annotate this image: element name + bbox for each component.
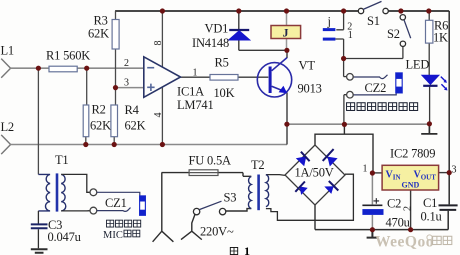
svg-text:J: J (283, 26, 289, 40)
wire VOUT pin3 (439, 172, 450, 174)
wire S2 bottom lead (402, 46, 404, 58)
terminal circle CZ1 lower (90, 207, 97, 214)
wire 220V left prong riser (161, 173, 163, 232)
svg-text:MIC: MIC (103, 230, 123, 241)
transistor Q1 VT 9013 (257, 58, 291, 97)
wire VT emitter down to rail and L2 (286, 93, 288, 145)
capacitor C2 electrolytic (362, 198, 383, 215)
wire R3 bottom to pin3 node and R4 (115, 49, 117, 105)
svg-text:C2: C2 (387, 197, 401, 211)
resistor R1 (49, 66, 77, 72)
wire relay J bottom lead (286, 39, 288, 51)
svg-text:1A/50V: 1A/50V (295, 166, 334, 180)
svg-text:3: 3 (124, 78, 129, 89)
wire S2 bypass horizontal (344, 58, 403, 60)
relay contact j bar upper (323, 28, 336, 31)
svg-text:8: 8 (153, 41, 164, 46)
svg-text:1: 1 (244, 244, 250, 255)
junction dot relay top (284, 8, 289, 13)
net label power out to recorder (347, 103, 418, 111)
resistor R2 (83, 105, 89, 137)
wire rail stub to VIN bus (343, 124, 345, 134)
bridge diode bottom-left (295, 182, 307, 195)
wire R2 top lead from L1 wire (86, 68, 88, 105)
bridge diode top-right (323, 149, 338, 166)
wire top supply rail y11 (115, 10, 449, 12)
terminal circle CZ1 upper (90, 189, 97, 196)
wire T1 secondary top to CZ1 (61, 174, 90, 192)
net label to recorder (106, 220, 140, 227)
junction dot pin3 node (113, 85, 118, 90)
wire T2 secondary bottom to bridge AC2 (266, 174, 354, 220)
bridge rectifier diamond (285, 145, 345, 205)
wire fuse line 220V to T2 (162, 173, 252, 177)
bridge diode top-left (296, 152, 310, 167)
wire C1 bottom to ground rail (447, 211, 449, 230)
ground tick at LED rail (421, 124, 437, 134)
wire R3 top lead from rail (115, 11, 117, 20)
relay coil J box (271, 26, 301, 40)
wire CZ2 upper contact with hook (353, 75, 388, 79)
svg-text:T2: T2 (251, 158, 265, 172)
junction dot L2-R2 (83, 142, 88, 147)
svg-text:R5: R5 (215, 56, 229, 70)
regulator IC2 7809 box (382, 165, 439, 190)
svg-text:IC1A: IC1A (177, 85, 204, 99)
terminal circle CZ2 upper (347, 74, 354, 81)
wire CZ1 lower contact with hook (97, 208, 131, 212)
relay contact j bar lower (323, 38, 336, 41)
svg-text:0.1u: 0.1u (421, 210, 443, 224)
transformer T1 core (56, 173, 59, 211)
wire bridge minus to ground rail (314, 205, 316, 230)
wire relay J top lead (286, 11, 288, 26)
svg-text:S3: S3 (224, 191, 237, 205)
wire bottom ground rail (315, 229, 448, 231)
net label MIC input (103, 230, 140, 241)
svg-text:62K: 62K (90, 119, 111, 133)
svg-text:CZ1: CZ1 (105, 196, 127, 210)
junction dot R6 top (426, 8, 431, 13)
wire unregulated rail y124 (287, 123, 430, 125)
svg-text:1: 1 (193, 68, 198, 79)
wire op-amp output to R5 (181, 76, 211, 78)
svg-text:3: 3 (452, 165, 457, 176)
wire L2 horizontal ground line (11, 144, 287, 146)
wire CZ1 upper contact to plug tip (97, 192, 140, 196)
junction dot C2 ground (370, 227, 375, 232)
svg-text:IN4148: IN4148 (192, 36, 229, 50)
wire R5 to VT base (238, 76, 268, 78)
connector CZ2 plug (396, 73, 402, 93)
junction dot L2-R4 (112, 142, 117, 147)
svg-text:S1: S1 (367, 14, 380, 28)
svg-text:GND: GND (402, 181, 420, 190)
svg-text:FU 0.5A: FU 0.5A (189, 154, 232, 168)
junction dot emitter rail (284, 122, 289, 127)
wire VD1 to relay bottom node (239, 49, 287, 51)
wire R2 bottom lead to L2 (85, 137, 87, 145)
svg-text:R1 560K: R1 560K (46, 49, 90, 63)
svg-text:1: 1 (363, 164, 368, 175)
wire T1 primary feed from L1 junction (37, 68, 39, 174)
diode VD1 IN4148 (229, 30, 250, 40)
resistor R5 (210, 75, 238, 81)
svg-text:IC2 7809: IC2 7809 (390, 147, 435, 161)
junction dot L2-pin4 (160, 142, 165, 147)
svg-text:j: j (327, 15, 331, 29)
transformer T1 primary winding (38, 174, 50, 211)
svg-text:62K: 62K (125, 119, 146, 133)
svg-text:62K: 62K (88, 27, 109, 41)
bridge diode bottom-right (324, 181, 338, 194)
svg-text:VD1: VD1 (205, 22, 229, 36)
resistor R6 (426, 20, 433, 43)
wire right edge V_OUT riser (448, 11, 450, 204)
transformer T2 secondary winding (266, 175, 269, 207)
wire CZ2 lower terminal to rail (344, 95, 347, 125)
wire C3 to ground (37, 229, 39, 248)
wire C2 lead (371, 173, 373, 229)
wire VT collector lead (286, 50, 288, 58)
wire T1 secondary bottom to CZ1 (61, 210, 90, 212)
junction dot contact top (341, 8, 346, 13)
wire CZ2 upper terminal stub (344, 76, 347, 78)
wire T1 primary bottom to C3 (37, 211, 39, 224)
junction dot GND pin rail (408, 227, 413, 232)
svg-text:VT: VT (299, 59, 316, 73)
svg-text:T1: T1 (55, 153, 69, 167)
svg-text:2: 2 (124, 58, 129, 69)
node L2 (antenna input 2) (1, 135, 10, 154)
wire bridge plus to VIN bus (315, 134, 373, 173)
svg-text:L2: L2 (1, 120, 15, 134)
svg-text:220V~: 220V~ (200, 225, 234, 239)
wire op-amp pin4 power lead (161, 87, 163, 144)
op-amp U1 IC1A triangle (144, 57, 181, 98)
ground below C3 (31, 249, 48, 253)
capacitor C3 (31, 224, 48, 228)
figure label 图1 (230, 244, 250, 255)
wire S3 to right prong (192, 214, 195, 231)
svg-text:1K: 1K (433, 31, 448, 45)
wire VD1 top lead (238, 11, 240, 29)
junction dot S2 top (398, 8, 403, 13)
transformer T1 secondary winding (61, 174, 66, 211)
junction dot VIN (370, 170, 375, 175)
svg-text:CZ2: CZ2 (365, 81, 387, 95)
svg-text:4: 4 (153, 113, 164, 118)
switch S2 (400, 15, 411, 47)
switch S3 (193, 201, 225, 215)
220V plug right prong (181, 231, 202, 239)
wire LED cathode to rail (429, 87, 431, 124)
svg-text:470u: 470u (386, 216, 411, 230)
junction dot VOUT (447, 170, 452, 175)
wire R4 bottom lead to L2 (113, 137, 115, 145)
svg-text:LM741: LM741 (177, 98, 214, 112)
junction dot op-amp pin8 (160, 8, 165, 13)
transformer T2 core (257, 175, 260, 211)
svg-text:C1: C1 (423, 196, 437, 210)
220V plug left prong (153, 231, 174, 242)
wire T2 secondary top to bridge (266, 174, 285, 177)
resistor R4 (111, 105, 118, 137)
connector CZ1 plug (140, 196, 146, 215)
svg-text:LED: LED (406, 58, 430, 72)
watermark WeeQoo (375, 234, 452, 251)
svg-text:0.047u: 0.047u (48, 230, 82, 244)
wire VD1 bottom lead (238, 40, 240, 50)
wire op-amp pin3 stub (116, 87, 144, 89)
junction dot rail CZ2 (342, 122, 347, 127)
wire j contact lower to S2 node (335, 39, 343, 77)
junction dot L1-T1 (36, 66, 41, 71)
svg-text:L1: L1 (1, 44, 15, 58)
wire R6 top lead (428, 11, 430, 20)
switch S1 (358, 1, 388, 13)
svg-text:S2: S2 (387, 27, 400, 41)
wire S3 to T2 primary bottom (226, 209, 252, 211)
resistor R3 (112, 20, 119, 50)
wire op-amp pin8 power lead (161, 11, 163, 67)
svg-text:R3: R3 (94, 14, 108, 28)
ground symbol below C2 (367, 230, 378, 238)
wire L1 horizontal to op-amp pin2 (11, 67, 144, 69)
svg-text:10K: 10K (214, 86, 235, 100)
wire CZ2 lower contact to plug sleeve (353, 93, 396, 95)
junction dot VD1 top (236, 8, 241, 13)
svg-text:R4: R4 (125, 103, 140, 117)
capacitor C1 (439, 205, 458, 210)
svg-text:WeeQoo: WeeQoo (375, 234, 434, 251)
svg-text:2: 2 (403, 206, 414, 211)
junction dot VD1-relay bottom (284, 48, 289, 53)
wire j contact feed from rail (336, 11, 343, 30)
fuse FU (189, 170, 218, 176)
LED D1 (422, 75, 448, 90)
junction dot rail LED (427, 121, 432, 126)
transformer T2 primary winding (248, 177, 251, 209)
junction dot L1-R2 (84, 66, 89, 71)
svg-text:1: 1 (348, 30, 353, 41)
wire GND pin2 lead (410, 190, 412, 230)
svg-text:9013: 9013 (298, 82, 322, 96)
wire R6 to LED (428, 43, 430, 75)
svg-text:R2: R2 (92, 103, 106, 117)
wire VIN pin1 (373, 172, 383, 174)
node L1 (antenna input 1) (1, 59, 10, 78)
junction dot S2 bypass (341, 56, 346, 61)
terminal circle CZ2 lower (347, 91, 354, 98)
